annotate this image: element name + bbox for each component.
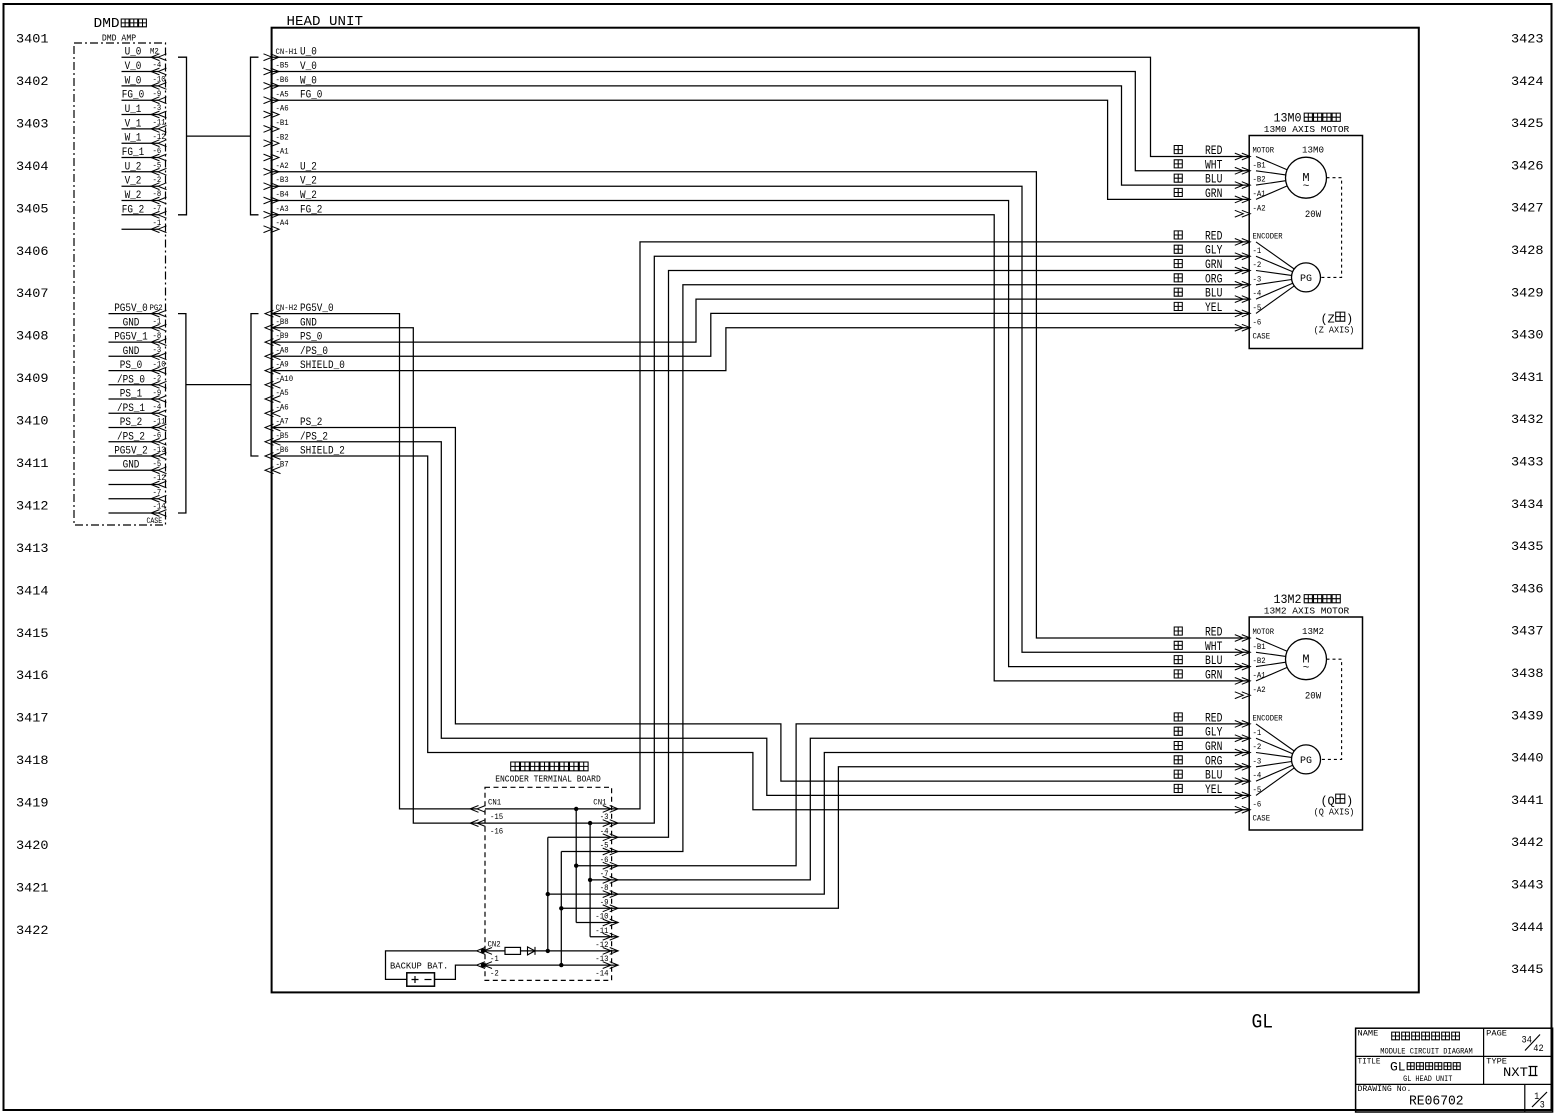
svg-text:CN1: CN1 (488, 798, 501, 807)
wire terminal board CN1 to 13M0 encoder GLY 13M0 (611, 256, 1250, 823)
board internal wire row CN1-9 (548, 893, 611, 895)
CN-H2 pin row 5 SHIELD_0 (265, 367, 281, 374)
wire SHIELD_2 from CN-H2 to 13M2 encoder case pin (272, 456, 1250, 810)
PG2 pin row 1 PG5V_0 (109, 313, 159, 315)
M2 pin row 5 U_1 (122, 114, 159, 116)
MOTOR pin row 2 (1235, 649, 1251, 656)
svg-text:-B3: -B3 (276, 176, 289, 185)
PG2 pin row 12 GND (109, 469, 159, 471)
DMD amp block outline (dash-dot box) (74, 43, 166, 525)
svg-text:3444: 3444 (1511, 920, 1544, 935)
svg-text:PG: PG (1300, 274, 1312, 285)
CN-H1 pin row 6 (nc) (264, 126, 280, 133)
title block row divider 2 (1356, 1083, 1553, 1085)
encoder symbol PG of 13M2 (1292, 745, 1321, 774)
svg-text:-15: -15 (490, 813, 503, 822)
svg-text:U_0: U_0 (125, 47, 142, 59)
M2 pin row 3 W_0 (122, 85, 159, 87)
title block outline (1356, 1028, 1553, 1112)
CN-H2 pin row 6 (nc) (265, 381, 281, 388)
board internal wire row CN1-7 (576, 865, 611, 867)
connector PG2 on DMD amp (15 pins, encoder signals) (109, 303, 167, 526)
PG2 pin row 8 /PS_1 (109, 412, 159, 414)
wire terminal board CN1 to 13M0 encoder RED 13M0 (611, 242, 1250, 809)
svg-text:-5: -5 (1253, 786, 1262, 795)
svg-text:3404: 3404 (16, 159, 49, 174)
svg-text:-A2: -A2 (1253, 204, 1266, 213)
encoder connector of 13M2 (1174, 711, 1283, 823)
wire colour label WHT (JP) (1174, 160, 1182, 168)
MOTOR pin row 3 (1235, 663, 1251, 670)
svg-text:DRAWING No.: DRAWING No. (1358, 1084, 1412, 1094)
junction (574, 807, 578, 811)
svg-text:WHT: WHT (1205, 158, 1223, 172)
CN1 right pin -8 arrow (603, 877, 619, 884)
wire W_2 from CN-H1 to 13M2 motor (272, 201, 1250, 667)
svg-text:-B2: -B2 (1253, 176, 1266, 185)
cable link PG2 to CN-H2 (186, 384, 251, 386)
wire battery - terminal to CN2-2 (435, 965, 477, 979)
svg-text:3434: 3434 (1511, 497, 1544, 512)
CN2 pin 1 arrow (477, 948, 493, 955)
board internal bus V3 (battery+) joining rows 5,9,13 (547, 837, 549, 951)
svg-text:/PS_1: /PS_1 (117, 403, 145, 415)
svg-text:YEL: YEL (1205, 783, 1222, 797)
board internal wire row CN1-6 (561, 851, 611, 853)
junction (546, 892, 550, 896)
svg-text:-B1: -B1 (276, 119, 289, 128)
board internal wire row CN2-1 to CN1-13 (485, 950, 618, 952)
CN1 right pin -14 arrow (603, 962, 619, 969)
svg-text:W_1: W_1 (125, 133, 142, 145)
svg-text:3438: 3438 (1511, 666, 1544, 681)
svg-text:GRN: GRN (1205, 187, 1222, 201)
svg-text:-B2: -B2 (1253, 657, 1266, 666)
connector M2 on DMD amp (13 pins, motor signals) (122, 47, 167, 233)
svg-text:DMD: DMD (94, 16, 120, 32)
ENCODER pin row 7 (1235, 806, 1251, 813)
M2 pin row 7 W_1 (122, 142, 159, 144)
PG2 pin row 5 PS_0 (109, 370, 159, 372)
M2 pin row 9 U_2 (122, 171, 159, 173)
wire U_0 from CN-H1 to 13M0 motor (272, 57, 1250, 156)
svg-text:3401: 3401 (16, 32, 49, 47)
svg-text:13M0: 13M0 (1302, 145, 1324, 156)
svg-text:3430: 3430 (1511, 328, 1544, 343)
svg-text:-B1: -B1 (1253, 161, 1266, 170)
PG2 pin row 13 (nc) (109, 484, 159, 486)
wire GND from CN-H2 down to terminal board CN1-16 (272, 328, 485, 823)
M2 pin row 4 FG_0 (122, 99, 159, 101)
CN-H1 pin row 8 (nc) (264, 154, 280, 161)
CN1 right pin -7 arrow (603, 862, 619, 869)
svg-text:-B4: -B4 (276, 191, 289, 200)
battery + symbol (412, 976, 419, 983)
board internal bus V2 (0V) joining rows 4,8,12 (589, 823, 591, 937)
title block small cell divider (1524, 1084, 1526, 1112)
wire PS_2 from CN-H2 to 13M2 encoder BLU (272, 428, 1250, 782)
wire colour label GRN (JP) (1174, 260, 1182, 268)
dashed shaft link M to PG of 13M2 (1321, 659, 1342, 759)
svg-text:-A6: -A6 (276, 105, 289, 114)
motor power connector of 13M2 (1174, 626, 1274, 699)
wire W_0 from CN-H1 to 13M0 motor (272, 86, 1250, 185)
ENCODER pin row 2 (1235, 735, 1251, 742)
svg-text:PAGE: PAGE (1486, 1029, 1507, 1039)
svg-text:RED: RED (1205, 626, 1222, 640)
svg-text:GL HEAD UNIT: GL HEAD UNIT (1403, 1075, 1452, 1084)
svg-text:13M0 AXIS MOTOR: 13M0 AXIS MOTOR (1264, 124, 1350, 135)
motor symbol M of 13M0 (1286, 157, 1327, 198)
board internal wire row CN1-15 through to CN1-3 (485, 808, 611, 810)
CN1 right pin -10 arrow (603, 905, 619, 912)
svg-text:3410: 3410 (16, 414, 49, 429)
CN1 right pin -11 arrow (603, 919, 619, 926)
board internal wire row CN1-5 (548, 836, 611, 838)
title block (1356, 1028, 1553, 1112)
CN-H1 pin row 3 W_0 (264, 83, 280, 90)
title block row divider 1 (1356, 1055, 1553, 1057)
wire colour label WHT (JP) (1174, 641, 1182, 649)
13M0 AXIS MOTOR block title (1264, 112, 1350, 136)
svg-text:-5: -5 (1253, 304, 1262, 313)
svg-text:GND: GND (123, 460, 140, 472)
wire colour label GLY (JP) (1174, 727, 1182, 735)
PG2 pin row 14 (nc) (109, 498, 159, 500)
ENCODER pin row 1 (1235, 239, 1251, 246)
svg-text:3432: 3432 (1511, 412, 1544, 427)
wire colour label BLU (JP) (1174, 174, 1182, 182)
title encoder terminal board (Japanese) (511, 762, 588, 771)
13M2 AXIS MOTOR block title (1264, 593, 1350, 617)
CN1 left pin 15 arrow (470, 806, 486, 813)
wire terminal board CN1 to 13M2 encoder GRN 13M2 (611, 753, 1250, 895)
CN-H2 pin row 3 PS_0 (265, 339, 281, 346)
svg-text:3435: 3435 (1511, 539, 1544, 554)
ENCODER pin row 6 (1235, 792, 1251, 799)
svg-text:DMD AMP: DMD AMP (102, 33, 137, 44)
axis label (Q axis) (1314, 794, 1355, 817)
CN1 right pin -9 arrow (603, 891, 619, 898)
svg-text:-4: -4 (600, 827, 609, 836)
wire colour label BLU (JP) (1174, 656, 1182, 664)
svg-text:GL: GL (1252, 1012, 1274, 1035)
CN1 right pin -6 arrow (603, 848, 619, 855)
svg-text:42: 42 (1533, 1043, 1543, 1055)
CN-H2 pin row 9 PS_2 (265, 424, 281, 431)
wire V_2 from CN-H1 to 13M2 motor (272, 186, 1250, 652)
M2 pin row 2 V_0 (122, 71, 159, 73)
HEAD UNIT block outline (272, 28, 1419, 993)
svg-text:V_2: V_2 (125, 176, 142, 188)
fan-out lines motor pins to M circle (1256, 638, 1287, 681)
svg-text:3409: 3409 (16, 371, 49, 386)
PG2 pin row 6 /PS_0 (109, 384, 159, 386)
wire colour label YEL (JP) (1174, 302, 1182, 310)
wire colour label GRN (JP) (1174, 742, 1182, 750)
svg-text:3414: 3414 (16, 583, 49, 598)
board internal wire row CN1-8 (590, 879, 611, 881)
ENCODER pin row 5 (1235, 296, 1251, 303)
board internal bus V1 (5V) joining rows 3,7,11 (575, 809, 577, 923)
svg-text:3402: 3402 (16, 74, 49, 89)
svg-text:CN-H2: CN-H2 (276, 304, 298, 313)
CN-H2 pin row 12 (nc) (265, 467, 281, 474)
svg-text:BLU: BLU (1205, 173, 1222, 187)
ENCODER pin row 5 (1235, 778, 1251, 785)
wire colour label ORG (JP) (1174, 756, 1182, 764)
svg-text:BLU: BLU (1205, 287, 1222, 301)
CN2 pin 2 arrow (477, 962, 493, 969)
battery - symbol (425, 979, 432, 981)
ENCODER pin row 1 (1235, 721, 1251, 728)
M2 pin row 8 FG_1 (122, 157, 159, 159)
motor symbol M of 13M2 (1286, 639, 1327, 680)
cable bundle bracket at DMD M2 connector (178, 57, 187, 215)
CN-H1 pin row 9 U_2 (264, 168, 280, 175)
CN-H2 pin row 1 PG5V_0 (265, 310, 281, 317)
svg-text:CASE: CASE (147, 517, 163, 526)
junction (574, 864, 578, 868)
svg-text:-1: -1 (490, 955, 499, 964)
svg-text:ENCODER TERMINAL BOARD: ENCODER TERMINAL BOARD (495, 775, 601, 785)
svg-text:3420: 3420 (16, 838, 49, 853)
wire terminal board CN1 to 13M2 encoder GLY 13M2 (611, 738, 1250, 880)
svg-text:ORG: ORG (1205, 754, 1222, 768)
wire terminal board CN1 to 13M2 encoder RED 13M2 (611, 724, 1250, 866)
svg-text:-2: -2 (490, 969, 499, 978)
wire colour label BLU (JP) (1174, 770, 1182, 778)
wire colour label GRN (JP) (1174, 670, 1182, 678)
CN-H1 pin row 13 (nc) (264, 226, 280, 233)
svg-text:20W: 20W (1305, 209, 1322, 221)
wire FG_0 from CN-H1 to 13M0 motor (272, 100, 1250, 199)
ENCODER pin row 3 (1235, 267, 1251, 274)
wire CN2-1 to battery + terminal (386, 951, 477, 980)
wire PG5V_0 from CN-H2 down to terminal board CN1-15 (272, 314, 477, 809)
svg-text:-B2: -B2 (276, 133, 289, 142)
svg-text:~: ~ (1303, 181, 1310, 193)
cable bundle bracket at DMD PG2 connector (178, 314, 186, 513)
CN-H1 pin row 10 V_2 (264, 183, 280, 190)
M2 pin row 12 FG_2 (122, 214, 159, 216)
svg-text:-A2: -A2 (276, 162, 289, 171)
encoder symbol PG of 13M0 (1292, 263, 1321, 292)
svg-text:3419: 3419 (16, 796, 49, 811)
svg-text:-6: -6 (1253, 800, 1262, 809)
wire colour label GRN (JP) (1174, 188, 1182, 196)
wire colour label YEL (JP) (1174, 784, 1182, 792)
svg-text:3422: 3422 (16, 923, 49, 938)
junction (559, 906, 563, 910)
wire V_0 from CN-H1 to 13M0 motor (272, 72, 1250, 171)
CN1 right pin -5 arrow (603, 834, 619, 841)
svg-text:-3: -3 (600, 813, 609, 822)
axis label (Z axis) (1314, 312, 1355, 335)
svg-text:3427: 3427 (1511, 201, 1544, 216)
svg-text:-1: -1 (1253, 247, 1262, 256)
svg-text:13M2 AXIS MOTOR: 13M2 AXIS MOTOR (1264, 606, 1350, 617)
diode on battery feed (CN2-1 row) (528, 947, 536, 955)
svg-text:PG5V_1: PG5V_1 (114, 332, 148, 344)
board internal wire row CN1-10 (561, 907, 611, 909)
svg-text:PG: PG (1300, 756, 1312, 767)
wire colour label GLY (JP) (1174, 245, 1182, 253)
motor power connector of 13M0 (1174, 144, 1274, 217)
svg-text:3436: 3436 (1511, 581, 1544, 596)
connector CN2 on terminal board (pins 1,2) (477, 940, 501, 978)
svg-text:3433: 3433 (1511, 455, 1544, 470)
svg-text:GLY: GLY (1205, 244, 1223, 258)
svg-text:BLU: BLU (1205, 769, 1222, 783)
svg-text:-B6: -B6 (276, 76, 289, 85)
svg-text:CASE: CASE (1253, 815, 1271, 824)
board internal wire row CN1-16 through to CN1-4 (485, 822, 611, 824)
svg-text:3408: 3408 (16, 329, 49, 344)
junction (588, 878, 592, 882)
svg-text:3: 3 (1540, 1100, 1545, 1112)
svg-text:-14: -14 (595, 969, 608, 978)
svg-text:V_0: V_0 (125, 61, 142, 73)
cable bundle bracket at CN-H2 (251, 314, 259, 456)
svg-text:GLY: GLY (1205, 726, 1223, 740)
PG2 pin row 15 (nc) (109, 512, 159, 514)
svg-text:/PS_0: /PS_0 (117, 374, 145, 386)
fan-out lines encoder pins to PG circle (1256, 724, 1294, 796)
svg-text:BLU: BLU (1205, 654, 1222, 668)
wire FG_2 from CN-H1 to 13M2 motor (272, 215, 1250, 681)
right margin line-number column 3423-3445 (1511, 32, 1544, 978)
svg-text:-16: -16 (490, 827, 503, 836)
M2 pin row 13 (nc) (122, 228, 159, 230)
PG2 pin row 3 PG5V_1 (109, 341, 159, 343)
CN1 left pin 16 arrow (470, 820, 486, 827)
CN-H1 pin row 5 (nc) (264, 111, 280, 118)
svg-text:GND: GND (123, 317, 140, 329)
wire colour label RED (JP) (1174, 627, 1182, 635)
svg-text:-1: -1 (1253, 729, 1262, 738)
junction (559, 963, 563, 967)
title block column divider (1483, 1028, 1485, 1084)
CN-H2 pin row 10 /PS_2 (265, 438, 281, 445)
MOTOR pin row 1 (1235, 635, 1251, 642)
svg-text:13M2: 13M2 (1302, 626, 1324, 637)
svg-text:GND: GND (123, 346, 140, 358)
CN1 right pin -3 arrow (603, 806, 619, 813)
M2 pin row 10 V_2 (122, 185, 159, 187)
junction (546, 949, 550, 953)
svg-text:CASE: CASE (1253, 333, 1271, 342)
connector CN-H2 on HEAD UNIT (12 pins) (265, 303, 345, 474)
PG2 pin row 9 PS_2 (109, 427, 159, 429)
encoder terminal board outline (dashed box) (485, 787, 612, 980)
svg-text:V_1: V_1 (125, 118, 142, 130)
svg-text:TYPE: TYPE (1486, 1057, 1507, 1067)
CN-H1 pin row 2 V_0 (264, 68, 280, 75)
MOTOR pin row 3 (1235, 182, 1251, 189)
svg-text:-8: -8 (600, 884, 609, 893)
svg-text:3443: 3443 (1511, 878, 1544, 893)
board internal wire row CN1-12 (590, 936, 618, 938)
connector CN1 right side of terminal board (pins 3-14) (593, 798, 618, 978)
MOTOR pin row 5 (1235, 210, 1251, 217)
CN1 right pin -12 arrow (603, 933, 619, 940)
svg-text:3417: 3417 (16, 711, 49, 726)
svg-text:3442: 3442 (1511, 835, 1544, 850)
svg-text:ENCODER: ENCODER (1253, 233, 1283, 242)
PG2 pin row 10 /PS_2 (109, 441, 159, 443)
wire colour label ORG (JP) (1174, 274, 1182, 282)
svg-text:3428: 3428 (1511, 243, 1544, 258)
svg-text:3413: 3413 (16, 541, 49, 556)
svg-text:WHT: WHT (1205, 640, 1223, 654)
svg-text:MODULE CIRCUIT DIAGRAM: MODULE CIRCUIT DIAGRAM (1380, 1047, 1472, 1056)
svg-text:-5: -5 (600, 842, 609, 851)
svg-text:3426: 3426 (1511, 158, 1544, 173)
wire PS_0 from CN-H2 to 13M0 encoder BLU (272, 299, 1250, 342)
svg-text:3416: 3416 (16, 668, 49, 683)
MOTOR pin row 1 (1235, 153, 1251, 160)
svg-text:3412: 3412 (16, 499, 49, 514)
MOTOR pin row 5 (1235, 692, 1251, 699)
svg-text:FG_2: FG_2 (122, 204, 144, 216)
svg-text:3424: 3424 (1511, 74, 1544, 89)
wire colour label RED (JP) (1174, 231, 1182, 239)
wire colour label BLU (JP) (1174, 288, 1182, 296)
MOTOR pin row 4 (1235, 678, 1251, 685)
svg-text:PG5V_0: PG5V_0 (114, 303, 148, 315)
CN1 right pin -13 arrow (603, 948, 619, 955)
CN-H2 pin row 4 /PS_0 (265, 353, 281, 360)
svg-text:GRN: GRN (1205, 668, 1222, 682)
motor unit 13M2 outline (1249, 617, 1362, 830)
M2 pin row 1 U_0 (122, 56, 159, 58)
svg-text:(Q AXIS): (Q AXIS) (1314, 806, 1355, 817)
PG2 pin row 4 GND (109, 355, 159, 357)
PG2 pin row 2 GND (109, 327, 159, 329)
svg-text:PS_2: PS_2 (120, 417, 142, 429)
MOTOR pin row 2 (1235, 167, 1251, 174)
svg-text:3441: 3441 (1511, 793, 1544, 808)
svg-text:-A3: -A3 (276, 205, 289, 214)
drawing name (Japanese): module circuit diagram (1392, 1032, 1460, 1040)
connector CN-H1 on HEAD UNIT (13 pins) (264, 47, 323, 233)
svg-text:-7: -7 (600, 870, 609, 879)
svg-text:W_0: W_0 (125, 75, 142, 87)
board internal wire row CN1-11 (576, 922, 618, 924)
terminal board internal wiring (485, 807, 618, 968)
svg-text:RED: RED (1205, 711, 1222, 725)
CN-H1 pin row 12 FG_2 (264, 211, 280, 218)
svg-text:NXT: NXT (1503, 1066, 1528, 1080)
svg-text:GRN: GRN (1205, 258, 1222, 272)
resistor on battery feed (CN2-1 row) (505, 947, 521, 954)
svg-text:CN-H1: CN-H1 (276, 48, 298, 57)
svg-text:3437: 3437 (1511, 624, 1544, 639)
CN-H1 pin row 1 U_0 (264, 54, 280, 61)
CN-H2 pin row 2 GND (265, 324, 281, 331)
left margin line-number column 3401-3422 (16, 32, 49, 939)
MOTOR pin row 4 (1235, 196, 1251, 203)
CN-H2 pin row 11 SHIELD_2 (265, 453, 281, 460)
svg-text:YEL: YEL (1205, 301, 1222, 315)
dashed shaft link M to PG of 13M0 (1321, 178, 1342, 278)
svg-text:NAME: NAME (1358, 1029, 1379, 1039)
svg-text:3431: 3431 (1511, 370, 1544, 385)
ENCODER pin row 2 (1235, 253, 1251, 260)
svg-text:TITLE: TITLE (1358, 1057, 1381, 1067)
svg-text:-A2: -A2 (1253, 686, 1266, 695)
